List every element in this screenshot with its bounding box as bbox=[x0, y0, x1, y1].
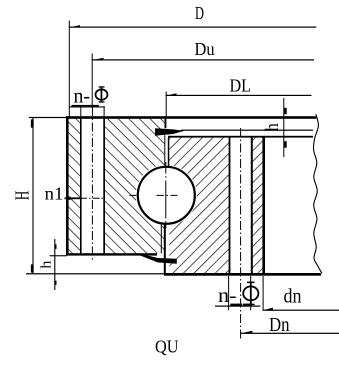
gap line above ball right (inner ring left face top) bbox=[168, 138, 170, 167]
inner ring bolt hole right edge bbox=[251, 137, 253, 275]
dimension h right arrow top bbox=[284, 108, 287, 114]
bottom phi dimension line bbox=[215, 306, 260, 307]
outer ring bolt hole centerline bbox=[91, 107, 93, 261]
dn extension line bbox=[262, 276, 264, 311]
inner ring top line T3 bbox=[168, 136, 313, 138]
top phi tick left bbox=[80, 107, 82, 119]
dimension Dn line bbox=[240, 333, 339, 334]
svg-text:D: D bbox=[195, 3, 204, 23]
inner ring bolt hole centerline bbox=[240, 128, 242, 340]
dimension H arrow top bbox=[31, 119, 34, 127]
svg-text:n-: n- bbox=[74, 83, 91, 107]
outer ring bolt hole left edge bbox=[80, 119, 82, 254]
n1 hole leader arrow bbox=[65, 196, 71, 200]
inner ring hatching (right ring, slash) bbox=[169, 138, 262, 273]
dimension H top extension bbox=[29, 117, 67, 118]
dimension H line bbox=[32, 118, 34, 274]
bottom seal bbox=[140, 254, 177, 264]
bottom phi tick right bbox=[250, 276, 252, 310]
svg-text:n1: n1 bbox=[45, 184, 64, 204]
bottom-left extension line bbox=[50, 255, 67, 256]
dimension Du arrow bbox=[93, 58, 104, 60]
dimension h left arrow top bbox=[55, 244, 57, 249]
svg-text:h: h bbox=[39, 260, 55, 269]
ball horizontal centerline bbox=[130, 194, 178, 196]
inner ring left face below ball bbox=[164, 223, 166, 275]
gap line below ball left bbox=[161, 223, 162, 254]
outer ring bottom edge B1 bbox=[66, 253, 157, 255]
dimension DL extension line bbox=[165, 92, 167, 117]
inner ring right edge bbox=[262, 137, 265, 275]
outer ring left edge bbox=[66, 116, 69, 255]
bottom phi tick left bbox=[228, 276, 230, 310]
dimension D arrow bbox=[70, 25, 80, 27]
dimension Dn arrow bbox=[241, 331, 253, 333]
dimension D extension line bbox=[68, 21, 70, 117]
top phi dimension line bbox=[69, 106, 105, 107]
dimension dn line bbox=[263, 310, 339, 311]
ball bbox=[138, 167, 195, 224]
ball vertical centerline bbox=[165, 162, 167, 229]
bottom line B2 thick part (inner ring bottom) bbox=[164, 273, 321, 276]
dimension h right line bbox=[283, 98, 285, 157]
svg-text:H: H bbox=[12, 191, 33, 201]
svg-text:DL: DL bbox=[230, 76, 252, 96]
ball white mask over hatch bbox=[136, 165, 197, 226]
dimension Du extension line bbox=[91, 54, 93, 108]
dimension h right arrow bottom bbox=[284, 141, 287, 148]
dimension D line bbox=[69, 27, 316, 28]
svg-text:n-: n- bbox=[218, 285, 237, 307]
svg-text:h: h bbox=[262, 123, 283, 131]
svg-text:Du: Du bbox=[195, 39, 215, 59]
dimension DL line bbox=[166, 95, 312, 96]
dimension DL arrow bbox=[167, 93, 177, 95]
svg-text:QU: QU bbox=[155, 337, 179, 357]
n1 hole centerline horizontal bbox=[80, 197, 105, 199]
dimension h left line bbox=[54, 239, 56, 290]
dimension h left arrow bottom bbox=[55, 281, 57, 285]
dimension dn arrow bbox=[264, 308, 273, 310]
outer ring bolt hole right edge bbox=[103, 119, 105, 254]
svg-text:dn: dn bbox=[284, 286, 302, 308]
top surface line T1 bbox=[66, 116, 316, 119]
top seal bbox=[155, 128, 185, 136]
n1 hole leader line bbox=[65, 197, 81, 199]
dimension Du line bbox=[92, 59, 314, 60]
break line (wavy) bbox=[313, 114, 322, 273]
top phi tick right bbox=[103, 107, 105, 119]
inner ring bolt hole left edge bbox=[229, 137, 231, 275]
gap line above ball left bbox=[164, 135, 165, 167]
outer ring right face above seal bbox=[165, 119, 167, 128]
svg-text:Dn: Dn bbox=[269, 314, 290, 336]
outer ring hatching (left ring, backslash) bbox=[69, 119, 165, 253]
top plate lower line T2 bbox=[181, 130, 313, 131]
bottom line B2 thin part bbox=[26, 273, 164, 274]
dimension H arrow bottom bbox=[31, 264, 34, 272]
